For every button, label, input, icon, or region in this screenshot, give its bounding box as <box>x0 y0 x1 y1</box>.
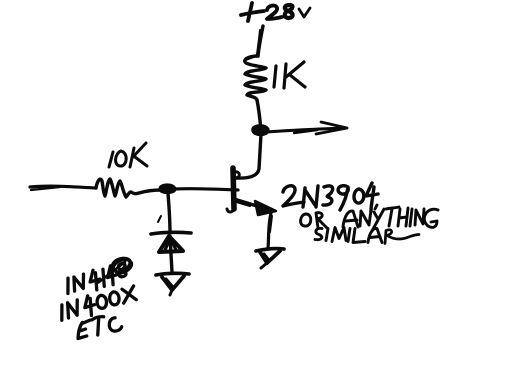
wire diode to ground <box>170 236 172 272</box>
label SIMILAR <box>315 228 419 244</box>
label IN4148 (struck out) <box>63 256 135 295</box>
scribble over 48 <box>111 256 133 274</box>
ground (left, arrow style) <box>156 273 189 275</box>
wire emitter down <box>268 213 271 248</box>
wire node to transistor collector <box>236 134 261 178</box>
diode D1 cathode bar <box>151 232 191 234</box>
diode D1 triangle <box>159 236 183 252</box>
wire resistor to collector node <box>257 100 261 131</box>
wire input line <box>30 186 96 188</box>
emitter arrowhead <box>255 201 276 215</box>
ground (right, arrow style) <box>256 249 284 251</box>
label 2N3904 <box>283 183 378 211</box>
label ETC <box>75 313 122 338</box>
label OR ANYTHING <box>301 205 438 231</box>
resistor R1 1K (vertical zigzag) <box>245 56 266 100</box>
transistor Q1 emitter <box>234 199 260 207</box>
node B (base junction dot) <box>160 185 175 193</box>
node A (collector junction dot) <box>253 126 268 135</box>
label +28v <box>241 3 310 21</box>
wire node B to base <box>174 189 238 190</box>
arrowhead output <box>316 122 347 134</box>
transistor Q1 base bar <box>233 168 234 209</box>
tick mark <box>158 216 161 222</box>
label IN400X <box>58 286 138 321</box>
label 10K <box>109 143 147 167</box>
label 1K <box>274 62 305 88</box>
wire from +28v down to resistor <box>258 26 263 56</box>
resistor R2 10K (horizontal zigzag) <box>96 179 161 197</box>
wire node B down to diode <box>168 193 170 232</box>
wire output arrow to the right <box>267 128 345 132</box>
